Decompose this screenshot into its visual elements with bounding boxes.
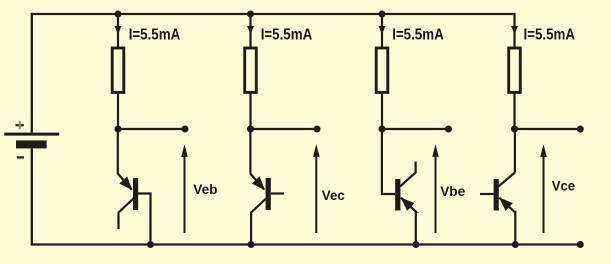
resistor R2: [245, 48, 257, 92]
current arrow branch 3: [379, 26, 386, 34]
wire branch 1 mid horizontal: [118, 128, 185, 130]
node branch 2 mid right terminal: [314, 126, 321, 133]
wire branch 3 top drop: [381, 14, 383, 48]
node top junction branch 1: [115, 11, 122, 18]
wire battery bottom lead: [31, 148, 33, 244]
svg-text:Veb: Veb: [193, 182, 217, 197]
node bottom rail right end: [577, 241, 584, 248]
wire branch 2 top drop: [249, 14, 251, 48]
label I=5.5mA branch 1: [129, 27, 181, 44]
wire left vertical (battery top lead): [31, 13, 33, 133]
wire branch 2 mid horizontal: [251, 128, 318, 130]
voltage arrow Vbe: [432, 144, 439, 233]
label I=5.5mA branch 2: [261, 27, 313, 44]
wire branch 4 collector lead: [514, 129, 516, 173]
wire branch 1 resistor to node: [117, 92, 119, 129]
node branch 4 mid right terminal: [577, 126, 584, 133]
label I=5.5mA branch 3: [392, 27, 444, 44]
voltage arrow Veb: [181, 144, 188, 233]
node branch 3 mid junction: [379, 126, 386, 133]
label Vce: [552, 178, 576, 193]
label Vbe: [440, 184, 465, 199]
current arrow branch 2: [247, 26, 254, 34]
svg-text:I=5.5mA: I=5.5mA: [129, 27, 181, 44]
wire branch 2 emitter lead: [249, 129, 251, 174]
battery B1 minus label: [17, 156, 24, 158]
node branch 3 emitter to rail: [412, 241, 419, 248]
battery B1 plus label: [16, 121, 24, 129]
node branch 2 mid junction: [247, 126, 254, 133]
transistor Q4: [480, 173, 515, 245]
node top junction branch 3: [379, 11, 386, 18]
svg-text:I=5.5mA: I=5.5mA: [524, 27, 576, 44]
label Veb: [193, 182, 217, 197]
node branch 4 emitter to rail: [512, 241, 519, 248]
wire top rail corner to branch 4: [513, 13, 515, 48]
node branch 1 mid right terminal: [182, 126, 189, 133]
svg-text:Vce: Vce: [552, 178, 576, 193]
node branch 2 collector to rail: [248, 241, 255, 248]
resistor R1: [112, 48, 124, 92]
transistor Q1: [118, 174, 151, 245]
wire branch 4 mid horizontal: [515, 128, 581, 130]
current arrow branch 4: [511, 26, 518, 34]
wire branch 1 top drop: [117, 14, 119, 48]
resistor R3: [376, 48, 388, 92]
node branch 1 base to rail: [147, 241, 154, 248]
wire bottom rail: [31, 243, 581, 245]
node branch 1 mid junction: [115, 126, 122, 133]
battery B1: [4, 133, 59, 149]
node branch 4 mid junction: [511, 126, 518, 133]
voltage arrow Vec: [313, 144, 320, 233]
svg-text:Vec: Vec: [322, 188, 345, 203]
node top junction branch 2: [247, 11, 254, 18]
wire branch 3 mid horizontal: [382, 128, 449, 130]
label I=5.5mA branch 4: [524, 27, 576, 44]
wire branch 4 resistor to node: [513, 92, 515, 129]
voltage arrow Vce: [540, 144, 547, 233]
transistor Q3: [395, 162, 416, 245]
wire branch 2 resistor to node: [249, 92, 251, 129]
label Vec: [322, 188, 345, 203]
svg-text:Vbe: Vbe: [440, 184, 465, 199]
wire branch 3 resistor to node: [381, 92, 383, 129]
node branch 3 mid right terminal: [445, 126, 452, 133]
transistor Q2: [250, 174, 284, 245]
current arrow branch 1: [115, 26, 122, 34]
wire branch 1 emitter lead: [117, 129, 119, 174]
resistor R4: [509, 48, 521, 92]
svg-text:I=5.5mA: I=5.5mA: [261, 27, 313, 44]
wire top rail: [31, 13, 515, 15]
svg-text:I=5.5mA: I=5.5mA: [392, 27, 444, 44]
wire branch 3 base lead: [382, 129, 395, 194]
